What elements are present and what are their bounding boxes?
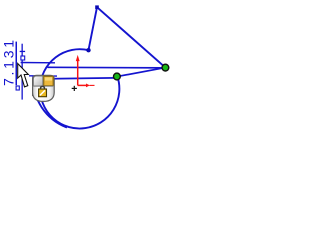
wire apex to point A <box>97 7 165 67</box>
mouse left button <box>33 76 42 86</box>
wire dimension extension line lower <box>29 75 57 77</box>
padlock shackle <box>41 86 45 89</box>
arc outer tangent arc bottom-left <box>33 76 67 128</box>
dimension leader vertical line <box>22 44 23 100</box>
node apex vertex point <box>95 5 99 9</box>
dimension text underline <box>16 42 18 86</box>
wire line2 tangent to circle to point B <box>41 78 115 79</box>
node green point A <box>162 64 169 71</box>
wire line1 tangent to circle to point A <box>48 66 166 69</box>
mouse right button gold <box>44 76 54 86</box>
origin black cross <box>72 87 77 89</box>
dimension handle square at underline end <box>16 86 19 90</box>
svg-text:7.131: 7.131 <box>0 37 16 86</box>
mouse button/body divider <box>33 85 54 87</box>
dimension 7.131 text <box>0 37 25 99</box>
wire apex to tangent point <box>89 7 98 50</box>
dimension handle square on leader <box>21 56 25 60</box>
origin sketch origin red axes <box>72 55 95 91</box>
wire point A to point B <box>117 68 165 77</box>
cursor arrow pointer <box>18 64 29 87</box>
wire dimension extension line upper <box>21 62 55 64</box>
dimension arrow tick <box>20 51 25 52</box>
padlock body <box>39 89 47 97</box>
mouse icon with right button highlighted <box>33 75 55 101</box>
node green point B <box>114 73 121 80</box>
circle main sketch circle <box>40 49 119 128</box>
node tangent point on circle <box>86 48 90 52</box>
